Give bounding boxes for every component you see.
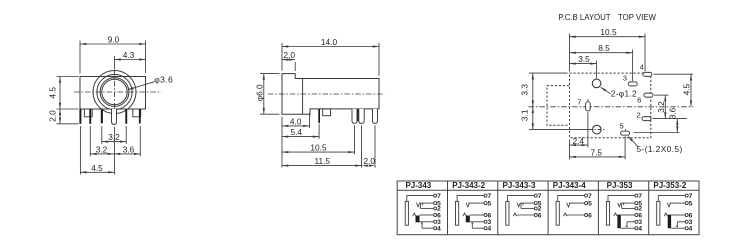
svg-text:2.0: 2.0 [283, 50, 295, 60]
svg-text:φ6.0: φ6.0 [255, 84, 265, 101]
svg-text:PJ-343-3: PJ-343-3 [502, 181, 535, 190]
svg-text:10.5: 10.5 [600, 27, 617, 37]
svg-text:6: 6 [637, 96, 641, 105]
svg-text:5: 5 [588, 200, 592, 207]
svg-text:PJ-353-2: PJ-353-2 [653, 181, 686, 190]
svg-text:2.4: 2.4 [573, 136, 585, 146]
svg-text:3: 3 [689, 219, 693, 226]
svg-text:10.5: 10.5 [310, 143, 327, 153]
svg-text:3.6: 3.6 [667, 107, 677, 119]
svg-text:3.2: 3.2 [656, 101, 666, 113]
svg-text:PJ-343: PJ-343 [405, 181, 431, 190]
svg-text:5: 5 [689, 200, 693, 207]
svg-text:5: 5 [619, 122, 623, 131]
svg-text:7: 7 [437, 193, 441, 200]
svg-text:4.5: 4.5 [91, 163, 103, 173]
svg-text:5.4: 5.4 [291, 127, 303, 137]
svg-text:4: 4 [640, 62, 644, 71]
svg-text:4: 4 [689, 226, 693, 233]
svg-text:TOP VIEW: TOP VIEW [618, 13, 656, 22]
svg-text:3.6: 3.6 [123, 144, 135, 154]
svg-text:2.0: 2.0 [364, 156, 376, 166]
svg-text:4.5: 4.5 [47, 87, 57, 99]
svg-text:φ3.6: φ3.6 [154, 75, 173, 85]
svg-text:7: 7 [577, 98, 581, 107]
svg-text:3.2: 3.2 [108, 132, 120, 142]
svg-text:3.2: 3.2 [96, 144, 108, 154]
svg-text:3: 3 [623, 73, 627, 82]
svg-text:4.0: 4.0 [290, 116, 302, 126]
svg-text:11.5: 11.5 [315, 156, 331, 166]
svg-text:2-φ1.2: 2-φ1.2 [611, 89, 637, 99]
svg-text:7: 7 [588, 193, 592, 200]
svg-text:14.0: 14.0 [321, 37, 338, 47]
svg-text:9.0: 9.0 [108, 35, 120, 45]
svg-text:2.0: 2.0 [47, 110, 57, 122]
svg-text:8.5: 8.5 [598, 43, 610, 53]
svg-text:6: 6 [538, 212, 542, 219]
svg-text:3.5: 3.5 [578, 54, 590, 64]
svg-text:4.5: 4.5 [682, 83, 692, 95]
svg-text:3.3: 3.3 [520, 84, 530, 96]
svg-text:4: 4 [437, 226, 441, 233]
svg-text:7: 7 [538, 193, 542, 200]
svg-text:PJ-353: PJ-353 [607, 181, 633, 190]
svg-text:6: 6 [588, 212, 592, 219]
svg-text:4.3: 4.3 [123, 50, 135, 60]
svg-text:7: 7 [689, 193, 693, 200]
svg-text:2: 2 [636, 110, 640, 119]
svg-text:4: 4 [487, 226, 491, 233]
svg-text:3.1: 3.1 [520, 109, 530, 121]
svg-text:4: 4 [638, 226, 642, 233]
svg-text:7: 7 [638, 193, 642, 200]
svg-text:3: 3 [638, 219, 642, 226]
svg-text:P.C.B LAYOUT: P.C.B LAYOUT [558, 13, 610, 22]
svg-text:PJ-343-2: PJ-343-2 [452, 181, 485, 190]
svg-text:7.5: 7.5 [591, 147, 603, 157]
svg-text:5-(1.2X0.5): 5-(1.2X0.5) [637, 144, 683, 154]
svg-text:7: 7 [487, 193, 491, 200]
svg-text:PJ-343-4: PJ-343-4 [553, 181, 586, 190]
svg-text:5: 5 [487, 200, 491, 207]
